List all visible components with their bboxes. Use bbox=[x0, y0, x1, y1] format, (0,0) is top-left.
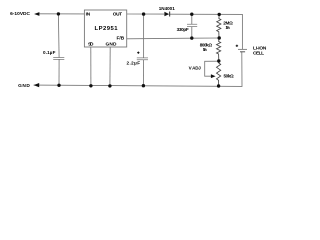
svg-text:CELL: CELL bbox=[253, 51, 264, 57]
svg-text:1N4001: 1N4001 bbox=[159, 6, 176, 11]
svg-text:V ADJ: V ADJ bbox=[189, 66, 202, 71]
svg-text:GND: GND bbox=[106, 42, 118, 48]
svg-text:330pF: 330pF bbox=[177, 27, 189, 32]
svg-text:1%: 1% bbox=[226, 25, 231, 30]
svg-text:50kΩ: 50kΩ bbox=[224, 74, 235, 79]
svg-text:6-10VDC: 6-10VDC bbox=[10, 11, 30, 17]
svg-text:2.2µF: 2.2µF bbox=[127, 60, 141, 65]
svg-text:S/D: S/D bbox=[88, 42, 94, 48]
svg-text:OUT: OUT bbox=[113, 11, 122, 17]
svg-text:IN: IN bbox=[86, 11, 91, 17]
svg-text:0.1µF: 0.1µF bbox=[43, 50, 56, 55]
svg-text:1%: 1% bbox=[203, 47, 207, 52]
svg-text:LP2951: LP2951 bbox=[95, 26, 119, 32]
svg-text:F/B: F/B bbox=[117, 36, 125, 42]
svg-text:GND: GND bbox=[18, 83, 30, 89]
